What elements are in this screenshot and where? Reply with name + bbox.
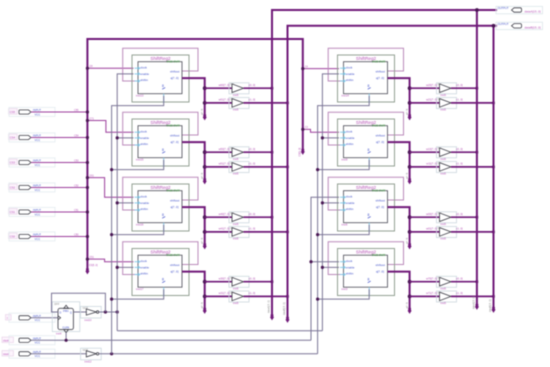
junction: [408, 150, 412, 154]
wire: buffer input row 217.2: [410, 216, 440, 218]
wire: pin CS3 to CS bus: [31, 162, 87, 164]
junction: [203, 150, 207, 154]
junction: [492, 102, 495, 105]
wire: buffer output to collection bus: [244, 87, 273, 89]
svg-text:inst10: inst10: [85, 318, 92, 322]
input pin clcok: [2, 337, 13, 342]
wire: q[7..0] bus from block 1: [182, 78, 205, 116]
wire: buffer input row 152.2: [410, 151, 440, 153]
svg-text:x0..0]: x0..0]: [249, 277, 256, 281]
inverter NOT2 inst12: [81, 348, 102, 360]
output pin dataB[15..0]: [496, 22, 543, 30]
svg-text:q[7..0]: q[7..0]: [406, 173, 408, 179]
svg-text:PRN: PRN: [63, 310, 68, 313]
wire: buffer input row 166.9: [205, 166, 232, 168]
svg-text:D: D: [60, 311, 62, 314]
junction: [476, 87, 479, 90]
buffer (wire/tri): [437, 83, 457, 97]
buffer (wire/tri): [437, 161, 457, 175]
svg-text:x0..0]: x0..0]: [456, 212, 463, 216]
wire: NOT2 output across bottom: [99, 353, 318, 355]
svg-text:CS0: CS0: [10, 234, 16, 238]
buffer (wire/tri): [229, 291, 249, 305]
svg-text:inst14: inst14: [342, 94, 350, 98]
wire: buffer output to collection bus: [451, 151, 477, 153]
svg-text:Q: Q: [70, 311, 72, 314]
wire: pin CS1 to CS bus: [31, 211, 87, 213]
wire: q[7..0] bus from block 5: [388, 78, 410, 116]
svg-text:w40[7..0]: w40[7..0]: [219, 212, 230, 216]
svg-text:q[7..0]: q[7..0]: [201, 173, 203, 179]
buffer (wire/tri): [229, 147, 249, 161]
wire: buffer input row 88.2: [410, 87, 440, 89]
wire: dataA collection bus (right half): [476, 10, 478, 306]
wire: buffer input row 166.9: [410, 166, 440, 168]
wire: pin CS0 to CS bus: [31, 236, 87, 238]
svg-text:q[7..0]: q[7..0]: [406, 302, 408, 308]
wire: branch C71 to shiftreg clock: [87, 121, 133, 133]
svg-text:CLRN: CLRN: [62, 327, 69, 330]
junction: [203, 280, 207, 284]
svg-text:x1..0]: x1..0]: [249, 162, 256, 166]
wire: buffer input row 231.9: [205, 231, 232, 233]
wire: buffer output to collection bus: [244, 231, 288, 233]
svg-text:C51: C51: [89, 256, 94, 259]
svg-text:dataB[15..0]: dataB[15..0]: [489, 299, 492, 312]
svg-text:inst13: inst13: [136, 94, 144, 98]
svg-text:x0..0]: x0..0]: [249, 83, 256, 87]
svg-text:x1..0]: x1..0]: [456, 227, 463, 231]
svg-text:x1..0]: x1..0]: [249, 98, 256, 102]
bus end arrow middle: [301, 149, 305, 155]
wire: enable tap right: [322, 202, 339, 204]
svg-text:x0..0]: x0..0]: [456, 83, 463, 87]
wire: buffer output to collection bus: [244, 295, 288, 297]
buffer (wire/tri): [229, 161, 249, 175]
wire: dataA collection bus (left half): [272, 10, 497, 316]
junction: [475, 8, 479, 12]
svg-text:w41[7..0]: w41[7..0]: [219, 227, 230, 231]
svg-text:CS[5..0]: CS[5..0]: [89, 264, 98, 267]
junction: [476, 280, 479, 283]
svg-text:inst15: inst15: [136, 158, 144, 162]
wire: dataB collection bus (left half): [288, 26, 498, 319]
buffer (wire/tri): [229, 212, 249, 226]
wire: left bottom-clock riser (NOT2 net): [112, 96, 164, 354]
svg-text:CS2: CS2: [10, 185, 16, 189]
wire: buffer output to collection bus: [244, 102, 288, 104]
op ShiftReg2 inst3: [328, 242, 403, 297]
svg-text:w70[7..0]: w70[7..0]: [426, 277, 437, 281]
wire: buffer input row 102.9: [205, 102, 232, 104]
svg-text:w11[7..0]: w11[7..0]: [426, 162, 437, 166]
buffer (wire/tri): [437, 147, 457, 161]
input pin CS5: [9, 109, 18, 115]
wire: buffer output to collection bus: [451, 87, 477, 89]
svg-text:reset: reset: [3, 352, 9, 356]
junction: [408, 280, 412, 284]
junction: [286, 102, 289, 105]
wire: buffer input row 281.7: [410, 281, 440, 283]
wire: branch C8 to shiftreg clock: [87, 67, 133, 69]
svg-text:C50: C50: [74, 233, 79, 236]
wire: pin CS5 to CS bus: [31, 111, 87, 113]
wire: buffer input row 152.2: [205, 151, 232, 153]
op ShiftReg2 inst13: [123, 48, 198, 103]
junction: [476, 151, 479, 154]
wire: NOT1 output / feedback to D: [99, 311, 117, 313]
svg-text:x1..0]: x1..0]: [249, 227, 256, 231]
junction: [203, 215, 207, 219]
svg-text:inst9: inst9: [342, 158, 348, 162]
svg-text:x0..0]: x0..0]: [456, 277, 463, 281]
svg-text:w51[7..0]: w51[7..0]: [219, 162, 230, 166]
input pin CS1: [9, 209, 18, 215]
junction: [492, 166, 495, 169]
svg-text:q[7..0]: q[7..0]: [406, 238, 408, 244]
svg-text:x1..0]: x1..0]: [456, 162, 463, 166]
wire: buffer output to collection bus: [451, 102, 494, 104]
wire: bottom clock tap: [112, 160, 164, 170]
svg-text:CS1: CS1: [10, 210, 16, 214]
svg-text:DFF: DFF: [54, 302, 60, 306]
svg-text:x0..0]: x0..0]: [456, 147, 463, 151]
svg-text:x0..0]: x0..0]: [249, 147, 256, 151]
output pin dataA[15..0]: [496, 6, 543, 14]
svg-text:w30[7..0]: w30[7..0]: [219, 277, 230, 281]
junction: [286, 295, 289, 298]
op ShiftReg2 inst15: [123, 112, 198, 167]
svg-text:q[7..0]: q[7..0]: [201, 109, 203, 115]
junction: [271, 87, 274, 90]
svg-text:CS3: CS3: [10, 160, 16, 164]
junction: [492, 295, 495, 298]
svg-text:inst6: inst6: [342, 223, 348, 227]
wire: bottom clock tap right: [318, 225, 370, 235]
wire: buffer input row 231.9: [410, 231, 440, 233]
wire: q[7..0] bus from block 4: [182, 272, 205, 310]
svg-text:C71: C71: [89, 117, 94, 120]
buffer (wire/tri): [437, 97, 457, 111]
svg-text:w00[7..0]: w00[7..0]: [426, 212, 437, 216]
wire: DFF CLRN to reset-row: [65, 333, 67, 341]
svg-text:CS[5..0]: CS[5..0]: [299, 148, 302, 157]
wire: enable tap: [117, 202, 133, 204]
op ShiftReg2 inst17: [123, 242, 198, 297]
buffer (wire/tri): [229, 226, 249, 240]
buffer (wire/tri): [437, 212, 457, 226]
input pin reset: [2, 351, 13, 356]
wire: enable tap: [117, 266, 133, 268]
wire: NOT1 net across bottom: [117, 330, 322, 332]
wire: buffer input row 217.2: [205, 216, 232, 218]
svg-text:C61: C61: [89, 174, 94, 177]
wire: bottom clock tap right: [318, 160, 370, 170]
svg-text:w61[7..0]: w61[7..0]: [219, 98, 230, 102]
wire: q[7..0] bus from block 7: [388, 207, 410, 245]
svg-text:dataA[15..0]: dataA[15..0]: [268, 300, 271, 313]
op ShiftReg2 inst9: [328, 112, 403, 167]
svg-text:w60[7..0]: w60[7..0]: [219, 83, 230, 87]
junction: [492, 231, 495, 234]
junction: [476, 216, 479, 219]
wire: buffer input row 296.4: [410, 295, 440, 297]
wire: buffer input row 88.2: [205, 87, 232, 89]
wire: enable tap right: [322, 266, 339, 268]
svg-text:dataB[15..0]: dataB[15..0]: [525, 25, 541, 29]
junction: [110, 352, 113, 355]
junction: [286, 231, 289, 234]
wire: branch C51 to shiftreg clock: [87, 259, 133, 262]
svg-text:w01[7..0]: w01[7..0]: [426, 227, 437, 231]
inverter NOT1 inst10: [81, 306, 102, 318]
wire: dataB collection bus (right half): [493, 26, 495, 309]
svg-text:x1..0]: x1..0]: [456, 291, 463, 295]
op ShiftReg2 inst14: [328, 48, 403, 103]
svg-text:inst3: inst3: [342, 287, 348, 291]
op ShiftReg2 inst6: [328, 177, 403, 232]
buffer (wire/tri): [229, 83, 249, 97]
input pin I (clock in): [6, 315, 12, 320]
wire: left enable riser (NOT1 net): [117, 74, 133, 331]
junction: [271, 216, 274, 219]
svg-text:inst4: inst4: [56, 332, 62, 336]
junction: [408, 86, 412, 90]
svg-text:x1..0]: x1..0]: [456, 98, 463, 102]
wire: CS[5..0] input bus (thick): [87, 39, 302, 270]
wire: buffer input row 296.4: [205, 295, 232, 297]
svg-text:CS5: CS5: [10, 110, 16, 114]
svg-text:CS4: CS4: [10, 135, 16, 139]
wire: buffer output to collection bus: [451, 281, 477, 283]
wire: branch C4 to shiftreg clock: [303, 68, 339, 70]
wire: q[7..0] bus from block 2: [182, 142, 205, 180]
svg-text:inst12: inst12: [85, 360, 92, 364]
wire: branch C61 to shiftreg clock: [87, 178, 133, 198]
wire: buffer output to collection bus: [244, 281, 273, 283]
wire: bottom clock tap: [112, 225, 164, 235]
svg-text:q[7..0]: q[7..0]: [201, 238, 203, 244]
wire: DFF Q to NOT1: [73, 311, 86, 313]
wire: buffer input row 281.7: [205, 281, 232, 283]
junction: [203, 86, 207, 90]
junction: [492, 24, 496, 28]
wire: right enable riser (NOT1 net): [322, 74, 339, 331]
wire: buffer output to collection bus: [451, 295, 494, 297]
wire: bottom clock tap: [112, 289, 164, 299]
buffer (wire/tri): [229, 97, 249, 111]
wire: buffer output to collection bus: [244, 216, 273, 218]
input pin CS4: [9, 134, 18, 140]
svg-text:dataA[15..0]: dataA[15..0]: [525, 10, 541, 14]
wire: pin CS2 to CS bus: [31, 187, 87, 189]
wire: pin CS4 to CS bus: [31, 137, 87, 139]
wire: clcok pin across bottom to right risers: [31, 339, 311, 341]
svg-text:x1..0]: x1..0]: [249, 291, 256, 295]
wire: right bottom-clock riser (NOT2 net): [318, 96, 370, 354]
svg-text:q[7..0]: q[7..0]: [406, 109, 408, 115]
input pin CS0: [9, 233, 18, 239]
wire: q[7..0] bus from block 3: [182, 207, 205, 245]
svg-text:x0..0]: x0..0]: [249, 212, 256, 216]
svg-text:inst16: inst16: [136, 223, 144, 227]
svg-text:C55: C55: [74, 109, 79, 112]
wire: enable tap: [117, 137, 133, 139]
junction: [408, 215, 412, 219]
svg-text:C51: C51: [74, 209, 79, 212]
svg-text:dataA[15..0]: dataA[15..0]: [472, 296, 475, 309]
wire: enable tap right: [322, 137, 339, 139]
svg-text:w71[7..0]: w71[7..0]: [426, 291, 437, 295]
wire: feedback loop: [52, 293, 106, 312]
svg-text:C54: C54: [74, 134, 79, 137]
wire: buffer output to collection bus: [451, 166, 494, 168]
wire: buffer output to collection bus: [451, 216, 477, 218]
junction: [104, 310, 107, 313]
buffer (wire/tri): [229, 276, 249, 290]
svg-text:C53: C53: [74, 159, 79, 162]
wire: q[7..0] bus from block 6: [388, 142, 410, 180]
wire: R4 p1 tap: [311, 261, 339, 263]
bus end arrow left: [85, 268, 89, 274]
buffer (wire/tri): [437, 226, 457, 240]
wire: buffer output to collection bus: [244, 166, 288, 168]
wire: right p1 riser (clcok net): [311, 197, 339, 340]
svg-text:inst17: inst17: [136, 287, 144, 291]
svg-text:w20[7..0]: w20[7..0]: [426, 83, 437, 87]
junction: [271, 151, 274, 154]
buffer (wire/tri): [437, 276, 457, 290]
wire: buffer output to collection bus: [244, 151, 273, 153]
svg-text:dataB[15..0]: dataB[15..0]: [283, 302, 286, 315]
wire: clock pin to DFF: [31, 317, 58, 319]
svg-text:w50[7..0]: w50[7..0]: [219, 147, 230, 151]
wire: bottom clock tap right: [318, 289, 370, 299]
flip-flop DFF inst4: [52, 302, 80, 332]
wire: q[7..0] bus from block 8: [388, 272, 410, 310]
svg-text:w10[7..0]: w10[7..0]: [426, 147, 437, 151]
input pin CS3: [9, 159, 18, 165]
junction: [65, 339, 68, 342]
junction: [271, 280, 274, 283]
buffer (wire/tri): [437, 291, 457, 305]
wire: branch C3 to shiftreg clock: [303, 129, 339, 132]
wire: buffer output to collection bus: [451, 231, 494, 233]
svg-text:w31[7..0]: w31[7..0]: [219, 291, 230, 295]
junction: [286, 166, 289, 169]
svg-text:w21[7..0]: w21[7..0]: [426, 98, 437, 102]
input pin CS2: [9, 184, 18, 190]
svg-text:C52: C52: [74, 184, 79, 187]
op ShiftReg2 inst16: [123, 177, 198, 232]
wire: reset pin to NOT gate: [31, 353, 86, 355]
wire: buffer input row 102.9: [410, 102, 440, 104]
svg-text:q[7..0]: q[7..0]: [201, 302, 203, 308]
